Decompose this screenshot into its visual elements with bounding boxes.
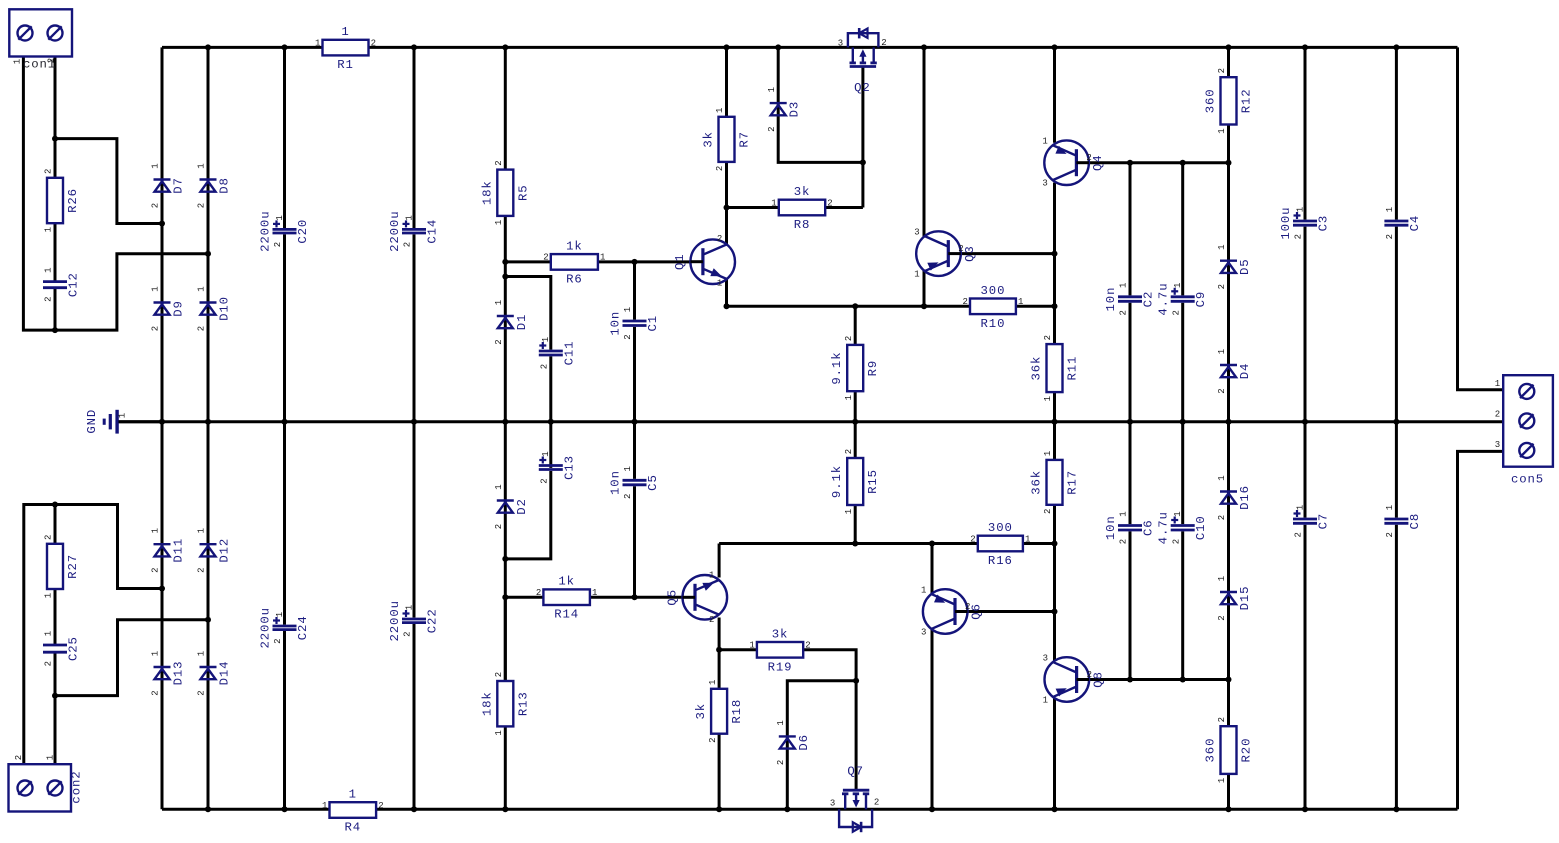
svg-text:2200u: 2200u xyxy=(259,607,273,648)
junction at (1054.5,809.3) xyxy=(1052,806,1058,812)
mosfet Q2 xyxy=(838,28,887,95)
svg-text:2: 2 xyxy=(1217,615,1227,620)
svg-text:2: 2 xyxy=(1294,532,1304,537)
svg-text:C2: C2 xyxy=(1142,291,1156,308)
transistor Q8 xyxy=(1043,653,1106,705)
svg-text:1: 1 xyxy=(197,163,207,168)
svg-text:3k: 3k xyxy=(702,131,716,148)
svg-text:1: 1 xyxy=(1217,576,1227,581)
svg-text:C25: C25 xyxy=(67,636,81,661)
junction at (284.5,47.4) xyxy=(282,44,288,50)
svg-text:1: 1 xyxy=(197,528,207,533)
svg-text:2: 2 xyxy=(197,203,207,208)
svg-text:1: 1 xyxy=(921,585,926,595)
resistor R27 xyxy=(44,535,80,599)
svg-text:2: 2 xyxy=(151,567,161,572)
junction at (1054.5,543.5) xyxy=(1052,541,1058,547)
svg-text:2: 2 xyxy=(708,737,718,742)
junction at (208,421.7) xyxy=(205,419,211,425)
junction at (787.3,809.3) xyxy=(784,806,790,812)
wire R8 row xyxy=(727,206,863,209)
wire Q2 gate xyxy=(861,67,864,208)
wire diode column D8/D10/D12/D14 xyxy=(207,47,210,809)
svg-text:1: 1 xyxy=(1217,128,1227,133)
svg-text:R4: R4 xyxy=(345,821,362,835)
wire Q1 emitter bus row xyxy=(727,305,1055,308)
junction at (862.9,162.4) xyxy=(860,159,866,165)
svg-text:C22: C22 xyxy=(426,608,440,633)
junction at (1054.5,421.7) xyxy=(1052,419,1058,425)
wire C3/C7 column xyxy=(1304,47,1307,809)
svg-text:R15: R15 xyxy=(866,469,880,494)
svg-text:2: 2 xyxy=(1385,532,1395,537)
junction at (1182.7,421.7) xyxy=(1180,419,1186,425)
junction at (414,421.7) xyxy=(411,419,417,425)
junction at (208,47.4) xyxy=(205,44,211,50)
resistor R11 xyxy=(1030,335,1080,401)
diode D9 xyxy=(151,286,186,331)
svg-text:2: 2 xyxy=(874,798,879,808)
wire Q3 collector up xyxy=(923,47,926,236)
svg-text:C1: C1 xyxy=(646,315,660,332)
diode D13 xyxy=(151,651,186,696)
svg-text:R12: R12 xyxy=(1240,88,1254,113)
svg-text:D12: D12 xyxy=(218,538,232,563)
wire C13 to GND rail xyxy=(549,422,552,468)
resistor R18 xyxy=(694,680,744,743)
wire C11 to GND rail xyxy=(549,356,552,421)
svg-text:1: 1 xyxy=(494,484,504,489)
svg-text:1: 1 xyxy=(404,605,414,610)
svg-text:Q3: Q3 xyxy=(963,245,977,262)
wire C9/C10 column xyxy=(1181,163,1184,680)
svg-text:1: 1 xyxy=(151,163,161,168)
svg-text:C3: C3 xyxy=(1317,215,1331,232)
diode D15 xyxy=(1217,576,1252,621)
junction at (856.1,680.7) xyxy=(853,678,859,684)
svg-text:R27: R27 xyxy=(66,554,80,579)
wire R11/R17 column xyxy=(1053,306,1056,661)
capacitor C11 xyxy=(539,337,577,369)
junction at (932,809.3) xyxy=(929,806,935,812)
svg-text:2: 2 xyxy=(1119,310,1129,315)
svg-text:1: 1 xyxy=(592,588,597,598)
svg-text:C4: C4 xyxy=(1408,215,1422,232)
svg-text:1: 1 xyxy=(771,198,776,208)
wire Q8 emitter down xyxy=(1053,696,1056,810)
svg-text:con2: con2 xyxy=(70,770,84,803)
svg-text:1: 1 xyxy=(1495,379,1500,389)
svg-text:3: 3 xyxy=(914,227,919,237)
svg-text:1: 1 xyxy=(541,451,551,456)
junction at (1396.4,421.7) xyxy=(1393,419,1399,425)
svg-text:2: 2 xyxy=(1087,670,1092,680)
wire C1 column xyxy=(633,262,636,422)
diode D8 xyxy=(197,163,232,208)
svg-text:Q7: Q7 xyxy=(847,764,864,778)
junction at (1396.4,809.3) xyxy=(1393,806,1399,812)
junction at (1228.5,679.5) xyxy=(1226,677,1232,683)
svg-text:R18: R18 xyxy=(730,699,744,724)
svg-text:1: 1 xyxy=(494,220,504,225)
svg-text:D9: D9 xyxy=(172,300,186,317)
svg-text:2: 2 xyxy=(1217,284,1227,289)
diode D5 xyxy=(1217,244,1252,289)
junction at (1054.5,306.3) xyxy=(1052,303,1058,309)
svg-text:1: 1 xyxy=(494,730,504,735)
junction at (726.5,306.3) xyxy=(724,303,730,309)
svg-text:D11: D11 xyxy=(172,538,186,563)
svg-text:1: 1 xyxy=(44,593,54,598)
resistor R9 xyxy=(830,336,880,401)
svg-text:C8: C8 xyxy=(1408,513,1422,530)
capacitor C24 xyxy=(259,607,311,648)
svg-text:2: 2 xyxy=(805,641,810,651)
svg-text:D4: D4 xyxy=(1238,363,1252,380)
svg-text:1: 1 xyxy=(45,755,55,760)
svg-text:4.7u: 4.7u xyxy=(1157,282,1171,315)
capacitor C10 xyxy=(1157,511,1209,544)
svg-text:10n: 10n xyxy=(1104,515,1118,540)
junction at (1182.7,162.7) xyxy=(1180,160,1186,166)
svg-text:2: 2 xyxy=(543,253,548,263)
junction at (1228.5,162.7) xyxy=(1226,160,1232,166)
svg-text:2: 2 xyxy=(44,535,54,540)
svg-text:3: 3 xyxy=(1495,440,1500,450)
svg-text:1: 1 xyxy=(151,651,161,656)
svg-text:3: 3 xyxy=(838,39,843,49)
svg-text:2: 2 xyxy=(273,638,283,643)
capacitor C13 xyxy=(539,451,577,483)
svg-text:C7: C7 xyxy=(1317,513,1331,530)
junction at (1228.5,809.3) xyxy=(1226,806,1232,812)
wire D3 column xyxy=(778,47,863,162)
svg-text:2: 2 xyxy=(1385,234,1395,239)
junction at (719.1,649.8) xyxy=(716,647,722,653)
svg-text:1: 1 xyxy=(197,651,207,656)
svg-text:2: 2 xyxy=(273,242,283,247)
svg-text:36k: 36k xyxy=(1030,470,1044,495)
svg-text:2: 2 xyxy=(715,166,725,171)
junction at (855.2,306.3) xyxy=(852,303,858,309)
svg-text:2: 2 xyxy=(197,690,207,695)
svg-text:C5: C5 xyxy=(646,474,660,491)
svg-text:2: 2 xyxy=(44,661,54,666)
svg-text:D5: D5 xyxy=(1238,258,1252,275)
svg-text:1k: 1k xyxy=(558,575,575,589)
junction at (162,223.5) xyxy=(159,221,165,227)
svg-text:3: 3 xyxy=(921,628,926,638)
mosfet Q7 xyxy=(830,764,879,832)
svg-text:2: 2 xyxy=(827,198,832,208)
wire R19 to Q7 gate xyxy=(803,650,856,681)
svg-text:2200u: 2200u xyxy=(388,210,402,251)
svg-text:C24: C24 xyxy=(296,615,310,640)
resistor R6 xyxy=(543,239,605,286)
resistor R20 xyxy=(1204,717,1254,783)
svg-text:D1: D1 xyxy=(515,314,529,331)
diode D10 xyxy=(197,286,232,331)
junction at (1054.5,253.6) xyxy=(1052,251,1058,257)
svg-text:1: 1 xyxy=(44,631,54,636)
svg-text:R20: R20 xyxy=(1240,738,1254,763)
svg-text:R8: R8 xyxy=(794,218,811,232)
svg-text:Q2: Q2 xyxy=(854,81,871,95)
wire GND mid rail xyxy=(119,420,1504,423)
svg-text:3: 3 xyxy=(1042,179,1047,189)
svg-text:1: 1 xyxy=(1043,451,1053,456)
svg-text:1: 1 xyxy=(1217,475,1227,480)
wire Q5 emitter / R18 column xyxy=(718,618,721,810)
svg-text:D10: D10 xyxy=(218,296,232,321)
svg-text:2: 2 xyxy=(1171,310,1181,315)
wire Q4 base row xyxy=(1078,161,1228,164)
diode D1 xyxy=(494,300,529,345)
svg-text:1: 1 xyxy=(1173,283,1183,288)
svg-text:2: 2 xyxy=(494,524,504,529)
svg-text:2: 2 xyxy=(540,478,550,483)
svg-text:1: 1 xyxy=(844,509,854,514)
diode D11 xyxy=(151,528,186,573)
svg-text:1: 1 xyxy=(13,59,23,64)
svg-text:2: 2 xyxy=(1495,409,1500,419)
capacitor C4 xyxy=(1384,207,1422,240)
resistor R10 xyxy=(962,284,1023,331)
svg-text:1: 1 xyxy=(717,279,722,289)
svg-text:1k: 1k xyxy=(566,239,583,253)
resistor R16 xyxy=(970,521,1030,568)
svg-text:D15: D15 xyxy=(1238,586,1252,611)
junction at (55,330.1) xyxy=(52,327,58,333)
junction at (505.3,809.3) xyxy=(502,806,508,812)
wire R9 column xyxy=(854,306,857,421)
svg-text:2: 2 xyxy=(494,672,504,677)
junction at (924,306.3) xyxy=(921,303,927,309)
svg-text:1: 1 xyxy=(275,612,285,617)
svg-text:1: 1 xyxy=(1385,207,1395,212)
junction at (55,138.6) xyxy=(52,136,58,142)
junction at (1396.4,47.4) xyxy=(1393,44,1399,50)
junction at (634.5,597.2) xyxy=(632,594,638,600)
junction at (1305,809.3) xyxy=(1302,806,1308,812)
diode D4 xyxy=(1217,349,1252,394)
svg-text:D7: D7 xyxy=(172,177,186,194)
junction at (162,421.7) xyxy=(159,419,165,425)
svg-text:1: 1 xyxy=(151,528,161,533)
svg-text:1: 1 xyxy=(776,720,786,725)
connector con1 xyxy=(9,9,72,71)
junction at (414,47.4) xyxy=(411,44,417,50)
svg-text:18k: 18k xyxy=(480,691,494,716)
diode D16 xyxy=(1217,475,1252,520)
capacitor C6 xyxy=(1104,511,1156,544)
svg-text:2: 2 xyxy=(776,760,786,765)
svg-text:1: 1 xyxy=(1018,297,1023,307)
capacitor C1 xyxy=(609,307,661,340)
resistor R26 xyxy=(44,169,80,233)
wire C2/C6 column xyxy=(1129,163,1132,680)
junction at (284.5,809.3) xyxy=(282,806,288,812)
diode D12 xyxy=(197,528,232,573)
svg-text:2: 2 xyxy=(151,203,161,208)
wire con1 pin2 / R26 / C12 column xyxy=(54,57,57,331)
svg-text:2: 2 xyxy=(1043,509,1053,514)
svg-text:R19: R19 xyxy=(768,660,793,674)
svg-text:18k: 18k xyxy=(480,180,494,205)
junction at (634.5,421.7) xyxy=(632,419,638,425)
junction at (726.5,47.4) xyxy=(724,44,730,50)
svg-text:1: 1 xyxy=(1119,283,1129,288)
junction at (208,619.7) xyxy=(205,617,211,623)
connector con2 xyxy=(9,755,84,812)
junction at (855.2,543.5) xyxy=(852,541,858,547)
svg-text:R13: R13 xyxy=(516,691,530,716)
svg-text:R5: R5 xyxy=(516,184,530,201)
wire diode column D7/D9/D11/D13 xyxy=(161,47,164,809)
svg-text:D6: D6 xyxy=(797,734,811,751)
wire Q3 base to Q4 column xyxy=(948,252,1054,255)
wire con2 pin1 branch to D12/D14 node xyxy=(55,620,208,696)
svg-text:2: 2 xyxy=(494,160,504,165)
resistor R8 xyxy=(771,185,832,232)
junction at (284.5,421.7) xyxy=(282,419,288,425)
svg-text:D13: D13 xyxy=(172,661,186,686)
svg-text:1: 1 xyxy=(315,38,320,48)
resistor R15 xyxy=(830,449,880,514)
svg-text:3: 3 xyxy=(830,798,835,808)
transistor Q3 xyxy=(914,227,977,279)
junction at (505.3,276.5) xyxy=(502,274,508,280)
capacitor C3 xyxy=(1279,207,1331,240)
capacitor C20 xyxy=(259,210,311,251)
resistor R14 xyxy=(536,575,598,622)
junction at (719.1,809.3) xyxy=(716,806,722,812)
wire R12/D5/D4/D16/D15/R20 column xyxy=(1227,47,1230,809)
svg-text:1: 1 xyxy=(151,286,161,291)
resistor R4 xyxy=(322,788,384,835)
svg-text:1: 1 xyxy=(1042,137,1047,147)
svg-text:R11: R11 xyxy=(1066,356,1080,381)
svg-text:2: 2 xyxy=(970,534,975,544)
wire C5 column xyxy=(633,422,636,598)
svg-text:C10: C10 xyxy=(1194,515,1208,540)
svg-text:D8: D8 xyxy=(218,177,232,194)
junction at (924,47.4) xyxy=(921,44,927,50)
svg-text:4.7u: 4.7u xyxy=(1157,511,1171,544)
capacitor C22 xyxy=(388,600,440,641)
svg-text:con1: con1 xyxy=(23,58,56,72)
svg-text:2: 2 xyxy=(197,567,207,572)
svg-text:2: 2 xyxy=(536,588,541,598)
svg-text:1: 1 xyxy=(541,337,551,342)
wire R14 row xyxy=(505,596,682,599)
svg-text:2: 2 xyxy=(14,755,24,760)
svg-text:10n: 10n xyxy=(1104,287,1118,312)
svg-text:2: 2 xyxy=(767,126,777,131)
resistor R5 xyxy=(480,160,530,225)
wire Q6 base row xyxy=(955,610,1055,613)
junction at (778.2,47.4) xyxy=(775,44,781,50)
svg-text:10n: 10n xyxy=(609,311,623,336)
junction at (1054.5,611.5) xyxy=(1052,609,1058,615)
junction at (634.5,261.9) xyxy=(632,259,638,265)
svg-text:360: 360 xyxy=(1204,738,1218,763)
wire output row y543 xyxy=(719,542,978,545)
svg-text:1: 1 xyxy=(44,267,54,272)
junction at (505.3,597.2) xyxy=(502,594,508,600)
svg-text:2: 2 xyxy=(709,615,714,625)
resistor R7 xyxy=(702,108,752,172)
transistor Q4 xyxy=(1042,137,1105,189)
capacitor C12 xyxy=(43,267,81,302)
svg-text:2: 2 xyxy=(844,336,854,341)
wire C20/C24 column xyxy=(283,47,286,809)
svg-text:1: 1 xyxy=(623,307,633,312)
svg-text:2: 2 xyxy=(962,297,967,307)
wire Q7 gate column xyxy=(855,681,858,791)
svg-text:2200u: 2200u xyxy=(388,600,402,641)
svg-text:C6: C6 xyxy=(1142,519,1156,536)
svg-text:1: 1 xyxy=(1295,505,1305,510)
svg-text:con5: con5 xyxy=(1511,473,1544,487)
capacitor C25 xyxy=(43,631,81,667)
svg-text:2: 2 xyxy=(1217,68,1227,73)
svg-text:R26: R26 xyxy=(66,188,80,213)
svg-text:1: 1 xyxy=(1119,511,1129,516)
svg-text:R10: R10 xyxy=(981,317,1006,331)
svg-text:1: 1 xyxy=(914,270,919,280)
wire Q4 collector down xyxy=(1053,183,1056,307)
junction at (208,809.3) xyxy=(205,806,211,812)
svg-text:300: 300 xyxy=(988,521,1013,535)
junction at (1054.5,47.4) xyxy=(1052,44,1058,50)
svg-text:D16: D16 xyxy=(1238,485,1252,510)
wire con5 pin1 feed xyxy=(1458,47,1504,389)
svg-text:R7: R7 xyxy=(738,131,752,148)
wire R7 column / Q1 collector xyxy=(725,47,728,244)
svg-text:1: 1 xyxy=(708,680,718,685)
resistor R1 xyxy=(315,25,376,72)
wire con1 pin2 branch to D7/D9 node xyxy=(55,139,162,224)
diode D14 xyxy=(197,651,232,696)
junction at (55,695.6) xyxy=(52,693,58,699)
diode D6 xyxy=(776,720,811,765)
wire C13 branch xyxy=(505,471,551,559)
svg-text:9.1k: 9.1k xyxy=(830,465,844,498)
svg-text:1: 1 xyxy=(44,227,54,232)
wire Q4 column upper xyxy=(1053,47,1056,142)
wire C4/C8 column xyxy=(1395,47,1398,809)
svg-text:3k: 3k xyxy=(694,703,708,720)
svg-text:R16: R16 xyxy=(988,554,1013,568)
svg-text:2: 2 xyxy=(881,38,886,48)
svg-text:1: 1 xyxy=(1173,511,1183,516)
svg-text:2: 2 xyxy=(197,326,207,331)
wire R19 row xyxy=(719,648,757,651)
svg-text:1: 1 xyxy=(494,300,504,305)
diode D2 xyxy=(494,484,529,529)
svg-text:1: 1 xyxy=(1217,349,1227,354)
capacitor C14 xyxy=(388,210,440,251)
transistor Q1 xyxy=(673,234,735,289)
resistor R19 xyxy=(749,627,810,674)
wire con1 pin1 to D8/D10 node xyxy=(23,57,208,331)
svg-text:R6: R6 xyxy=(566,272,583,286)
svg-text:GND: GND xyxy=(85,409,99,434)
svg-text:2: 2 xyxy=(844,449,854,454)
svg-text:C11: C11 xyxy=(562,341,576,366)
junction at (1305,421.7) xyxy=(1302,419,1308,425)
